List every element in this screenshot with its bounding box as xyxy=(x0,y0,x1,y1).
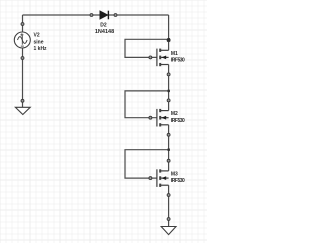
svg-text:M3: M3 xyxy=(171,172,178,178)
svg-text:M2: M2 xyxy=(171,111,178,117)
svg-text:V2: V2 xyxy=(34,32,40,38)
wire M3 gate feedback loop xyxy=(125,150,169,178)
label M2 IRF530 xyxy=(171,111,185,124)
terminal pin ground right xyxy=(167,218,170,221)
terminal pin M1 drain xyxy=(167,39,170,42)
wire M2 source to M3 drain xyxy=(168,125,170,171)
transistor M2 xyxy=(157,109,169,127)
svg-text:IRF530: IRF530 xyxy=(171,118,185,124)
terminal pin V2 minus xyxy=(21,57,24,60)
terminal pin M3 drain xyxy=(167,159,170,162)
terminal pin M2 drain xyxy=(167,99,170,102)
junction node M3 xyxy=(168,149,170,151)
terminal pin M1 gate xyxy=(149,56,152,59)
svg-text:1 kHz: 1 kHz xyxy=(34,46,48,52)
ground left xyxy=(15,107,30,114)
wire M1 gate feedback loop xyxy=(125,39,169,57)
terminal pin V2 plus xyxy=(21,23,24,26)
svg-text:IRF530: IRF530 xyxy=(171,178,185,184)
wire M2 gate feedback loop xyxy=(125,91,169,118)
svg-text:1N4148: 1N4148 xyxy=(95,29,114,35)
junction node M1 xyxy=(168,38,170,40)
voltage source V2 xyxy=(14,32,30,48)
ground right xyxy=(161,227,176,235)
terminal pin ground left xyxy=(21,99,24,102)
svg-text:IRF530: IRF530 xyxy=(171,58,185,64)
terminal pin M3 gate xyxy=(149,177,152,180)
transistor M3 xyxy=(157,169,169,187)
junction node M1 drain overlap xyxy=(167,38,171,42)
diode D2 xyxy=(100,11,109,20)
svg-text:sine: sine xyxy=(34,39,44,45)
terminal pin D2 cathode xyxy=(114,14,117,17)
terminal pin M2 gate xyxy=(149,116,152,119)
wire M1 source to M2 drain xyxy=(168,65,170,111)
wire V2 top lead xyxy=(22,15,24,32)
transistor M1 xyxy=(157,49,169,67)
terminal pin D2 anode xyxy=(90,14,93,17)
wire V2 bottom lead to ground xyxy=(22,48,24,107)
label M3 IRF530 xyxy=(171,172,185,185)
svg-text:D2: D2 xyxy=(100,22,107,28)
label M1 IRF530 xyxy=(171,51,185,64)
terminal pin M3 source xyxy=(167,194,170,197)
terminal pin M1 source xyxy=(167,73,170,76)
label D2 1N4148 xyxy=(95,22,114,35)
junction node M2 xyxy=(168,90,170,92)
wire M3 source to ground xyxy=(168,185,170,226)
label V2 sine 1 kHz xyxy=(34,32,48,52)
wire right trunk top to M1 drain xyxy=(168,15,170,50)
svg-text:M1: M1 xyxy=(171,51,178,57)
terminal pin M2 source xyxy=(167,133,170,136)
wire top rail from V2 to right trunk xyxy=(23,14,169,16)
